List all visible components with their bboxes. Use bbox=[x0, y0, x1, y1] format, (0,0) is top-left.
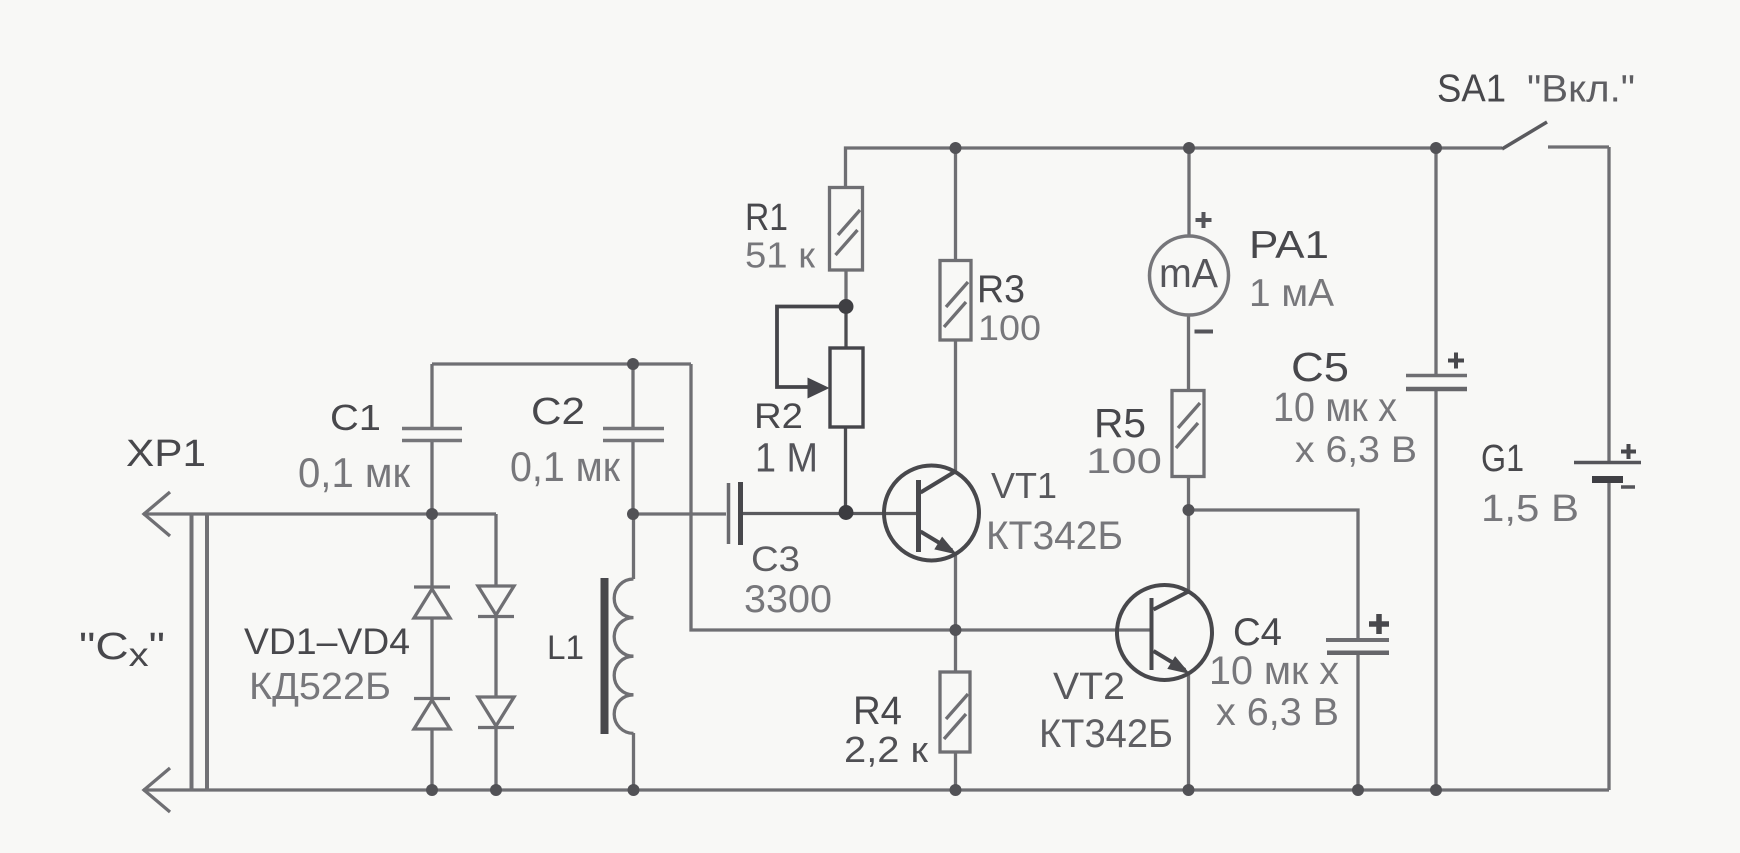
svg-text:2,2 к: 2,2 к bbox=[844, 729, 928, 770]
wire C2 bottom lead bbox=[631, 442, 634, 514]
wire diode col1 leads bbox=[430, 514, 433, 790]
wire G1 bottom branch bbox=[1607, 482, 1610, 790]
diode VD1 bbox=[414, 587, 450, 618]
wire C5 bottom lead bbox=[1434, 391, 1437, 790]
svg-text:100: 100 bbox=[1086, 442, 1162, 481]
svg-text:C3: C3 bbox=[751, 540, 800, 579]
wire C2 top lead bbox=[631, 364, 634, 427]
svg-text:х 6,3 В: х 6,3 В bbox=[1216, 691, 1339, 734]
node C2 bottom bbox=[627, 508, 639, 520]
wire feedback drop x691 to y630 bbox=[691, 364, 1152, 630]
capacitor C3 bbox=[729, 482, 741, 545]
node bottom diode col1 bbox=[426, 784, 438, 796]
wire C3 to VT1 base bbox=[743, 512, 917, 515]
wire R1-R2 node to R2 top bbox=[844, 306, 847, 349]
wire top rail bbox=[846, 148, 1503, 189]
svg-text:PA1: PA1 bbox=[1249, 224, 1329, 267]
connector XP1 pins bbox=[190, 513, 210, 791]
resistor R3 bbox=[940, 261, 971, 341]
node bottom VT2 bbox=[1183, 784, 1195, 796]
node C2 top bbox=[627, 358, 639, 370]
node PA1 top bbox=[1183, 142, 1195, 154]
connector XP1 arrows bbox=[144, 492, 170, 812]
wire VT1 emitter to R4 bbox=[954, 553, 957, 672]
wire VT2 emitter lead bbox=[1187, 672, 1190, 790]
transistor VT2 bbox=[1117, 585, 1212, 680]
svg-text:C1: C1 bbox=[330, 397, 381, 438]
svg-text:10 мк х: 10 мк х bbox=[1209, 649, 1339, 693]
svg-text:R3: R3 bbox=[977, 268, 1025, 311]
wire PA1 to R5 bbox=[1187, 314, 1190, 391]
inductor L1 winding bbox=[614, 579, 633, 733]
wire C5 top lead bbox=[1434, 148, 1437, 374]
svg-text:VD1–VD4: VD1–VD4 bbox=[244, 620, 410, 662]
svg-text:XP1: XP1 bbox=[126, 433, 206, 475]
wire C4 bottom lead bbox=[1356, 654, 1359, 790]
svg-text:"Вкл.": "Вкл." bbox=[1527, 69, 1635, 111]
node C5 top bbox=[1430, 142, 1442, 154]
svg-text:3300: 3300 bbox=[744, 578, 832, 621]
node bottom C4 bbox=[1352, 784, 1364, 796]
wire L1 bottom lead bbox=[632, 733, 635, 790]
wire R4 bottom lead bbox=[954, 752, 957, 790]
svg-text:G1: G1 bbox=[1481, 438, 1524, 480]
svg-text:L1: L1 bbox=[547, 629, 584, 667]
node R1-R2 bbox=[839, 299, 854, 314]
wire C1 top lead bbox=[430, 364, 433, 427]
switch SA1 bbox=[1502, 122, 1547, 149]
transistor VT1 bbox=[884, 466, 979, 561]
node bottom L1 bbox=[628, 784, 640, 796]
svg-text:КД522Б: КД522Б bbox=[249, 666, 391, 708]
wire R1 bottom to R2 bbox=[844, 270, 847, 308]
svg-text:VT1: VT1 bbox=[991, 465, 1057, 506]
resistor R2 (variable) bbox=[777, 307, 863, 428]
svg-text:1 М: 1 М bbox=[755, 435, 818, 481]
diode VD3 bbox=[478, 586, 514, 617]
capacitor C4 (electrolytic) bbox=[1326, 614, 1389, 653]
svg-text:"Cx": "Cx" bbox=[79, 626, 165, 673]
wire VT2 collector lead bbox=[1187, 510, 1190, 592]
svg-text:10 мк х: 10 мк х bbox=[1273, 384, 1397, 430]
junction nodes bbox=[426, 142, 1442, 796]
wire R2 bottom lead bbox=[844, 426, 847, 514]
wire node C2 to C3 bbox=[633, 512, 726, 515]
node R3 top bbox=[950, 142, 962, 154]
node VT1 emitter bbox=[950, 624, 962, 636]
wire G1 top branch bbox=[1607, 147, 1610, 461]
svg-text:51 к: 51 к bbox=[745, 235, 815, 276]
wire y364 C1-C2 top link bbox=[432, 362, 691, 365]
svg-text:R1: R1 bbox=[745, 197, 788, 239]
diode VD2 bbox=[414, 699, 450, 730]
resistor R5 bbox=[1172, 391, 1204, 477]
inductor L1 core bbox=[601, 578, 609, 734]
resistor R1 bbox=[830, 188, 863, 271]
wire R5 to VT2 collector node bbox=[1187, 476, 1190, 510]
node bottom R4 bbox=[950, 784, 962, 796]
wire PA1 top lead bbox=[1187, 148, 1190, 237]
node C1 bottom bbox=[426, 508, 438, 520]
wire R3 top lead bbox=[954, 148, 957, 261]
wire diode col2 leads bbox=[494, 514, 497, 790]
node VT1 base bbox=[839, 505, 854, 520]
node bottom diode col2 bbox=[490, 784, 502, 796]
node VT2 collector bbox=[1183, 504, 1195, 516]
resistor R4 bbox=[940, 672, 970, 752]
svg-text:1,5 В: 1,5 В bbox=[1481, 488, 1579, 530]
svg-text:R4: R4 bbox=[853, 689, 902, 733]
wire bottom rail bbox=[143, 788, 1609, 791]
svg-text:R2: R2 bbox=[754, 397, 803, 436]
svg-text:КТ342Б: КТ342Б bbox=[1039, 712, 1173, 756]
svg-text:100: 100 bbox=[978, 308, 1041, 348]
wire C1 bottom lead bbox=[430, 442, 433, 514]
svg-text:1 мА: 1 мА bbox=[1249, 272, 1334, 315]
svg-text:КТ342Б: КТ342Б bbox=[986, 514, 1123, 558]
svg-text:SA1: SA1 bbox=[1437, 68, 1506, 111]
diode VD4 bbox=[478, 697, 514, 728]
svg-text:C2: C2 bbox=[531, 391, 585, 433]
svg-text:mA: mA bbox=[1159, 250, 1219, 296]
svg-text:0,1 мк: 0,1 мк bbox=[298, 449, 411, 496]
svg-text:0,1 мк: 0,1 мк bbox=[510, 443, 621, 490]
meter PA1 bbox=[1150, 212, 1229, 332]
svg-text:C4: C4 bbox=[1233, 611, 1282, 654]
wire VT2 collector node to C4 bbox=[1189, 510, 1359, 638]
svg-text:VT2: VT2 bbox=[1053, 666, 1125, 708]
svg-text:R5: R5 bbox=[1094, 400, 1146, 446]
svg-text:х 6,3 В: х 6,3 В bbox=[1295, 429, 1417, 470]
battery G1 bbox=[1574, 444, 1641, 487]
capacitor C2 bbox=[603, 429, 664, 441]
wire R3 to VT1 collector bbox=[954, 340, 957, 472]
wire XP1 top bbox=[143, 512, 496, 515]
capacitor C1 bbox=[402, 429, 462, 441]
node bottom C5 bbox=[1430, 784, 1442, 796]
wire L1 top lead bbox=[632, 514, 635, 579]
capacitor C5 (electrolytic) bbox=[1406, 353, 1467, 390]
